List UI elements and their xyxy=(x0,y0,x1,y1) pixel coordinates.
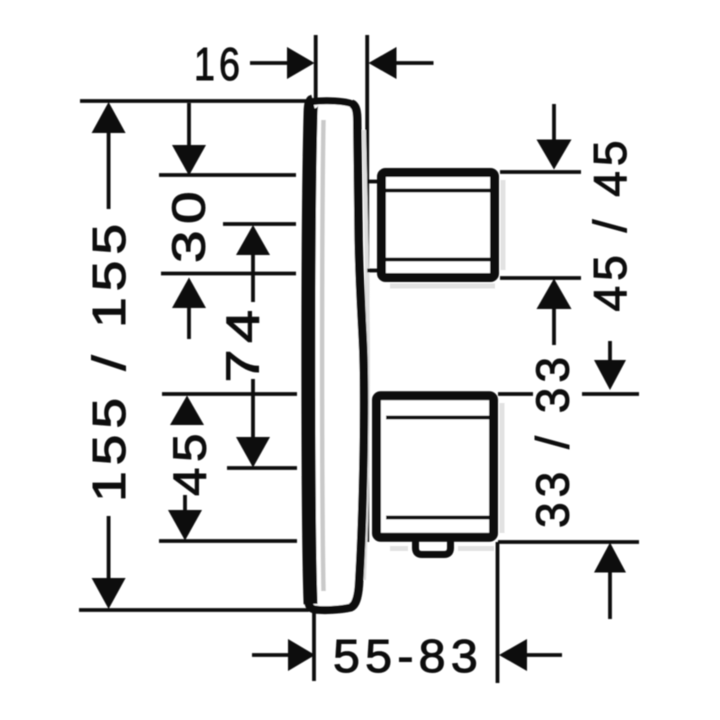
dimension 30 lower arrow tail xyxy=(187,306,191,339)
extension line top of lower knob (left, 45 top reference) xyxy=(162,392,297,396)
upper knob neck bottom line xyxy=(367,269,379,273)
extension line bottom of lower knob (right, 33/33 bottom reference) xyxy=(498,540,639,544)
svg-text:33 / 33: 33 / 33 xyxy=(527,352,579,528)
extension line axis of upper knob (74 top reference) xyxy=(223,222,296,226)
dimension 74 lower arrowhead xyxy=(236,437,270,468)
extension line rear face of plate (16 left reference) xyxy=(314,35,318,104)
dimension 45/45 upper tail xyxy=(552,104,556,141)
dimension 155/155 upper arrowhead xyxy=(92,102,126,133)
svg-text:45 / 45: 45 / 45 xyxy=(584,136,636,312)
extension line bottom of lower knob (left, 45 bottom reference) xyxy=(159,539,297,543)
plate right edge gray ghost xyxy=(364,130,368,580)
dimension 30 upper arrowhead xyxy=(172,145,206,176)
dimension 55-83 right arrow tail xyxy=(527,653,562,657)
svg-text:16: 16 xyxy=(194,38,244,90)
extension line top of plate (155 top reference) xyxy=(80,99,315,103)
dimension 16 right arrowhead xyxy=(369,47,397,79)
extension line top of lower knob (right, 33/33 top reference, left segment) xyxy=(498,392,533,396)
dimension 55-83 left arrow tail xyxy=(252,653,289,657)
svg-text:30: 30 xyxy=(163,185,215,263)
escutcheon plate (side profile, white fill body) xyxy=(309,101,364,610)
lower knob gray ghost (right and bottom) xyxy=(390,403,502,549)
upper knob inner top line xyxy=(386,189,490,193)
extension line bottom of upper knob (right, 45/45 bottom reference) xyxy=(500,276,581,280)
dimension 155/155 lower tail xyxy=(107,516,111,580)
lower knob (handle, side view) xyxy=(377,396,494,538)
svg-text:45: 45 xyxy=(164,428,216,496)
dimension 33/33 lower arrowhead xyxy=(594,543,626,573)
upper knob inner bottom line xyxy=(386,258,490,262)
plate inner highlight line xyxy=(322,120,323,591)
dimension 33/33 upper arrowhead xyxy=(594,360,626,390)
extension line top of upper knob (left, 30 top reference) xyxy=(159,173,296,177)
dimension 55-83 right arrowhead xyxy=(499,639,527,671)
lower knob inner top line xyxy=(386,416,489,420)
dimension 74 upper arrowhead xyxy=(236,225,270,255)
plate right edge xyxy=(351,104,364,608)
dimension 33/33 lower tail xyxy=(608,571,612,619)
upper knob gray ghost (right and bottom) xyxy=(390,180,503,286)
dimension 30 lower arrowhead xyxy=(172,278,206,309)
extension line bottom of upper knob (left, 30 bottom reference) xyxy=(161,272,296,276)
plate left edge xyxy=(308,102,313,604)
dimension 30 upper arrow tail xyxy=(187,103,191,147)
dimension 16 left arrow tail xyxy=(250,61,288,65)
dimension 155/155 upper tail xyxy=(107,133,111,209)
dimension 45 lower arrowhead xyxy=(168,510,202,541)
dimension 45 lower line xyxy=(183,495,187,512)
dimension 155/155 lower arrowhead xyxy=(92,578,126,609)
upper knob neck top line xyxy=(367,180,379,184)
dimension 45 upper arrowhead xyxy=(170,396,204,426)
extension line left of 55-83 span xyxy=(312,612,316,681)
plate bottom edge xyxy=(308,600,351,610)
extension line right of 55-83 span xyxy=(496,542,500,683)
extension line bottom of plate (155 bottom reference) xyxy=(79,608,309,612)
dimension 33/33 upper tail xyxy=(608,341,612,361)
extension line top of upper knob (right, 45/45 top reference) xyxy=(500,170,581,174)
lower knob inner bottom line xyxy=(386,516,489,520)
dimension 16 left arrowhead xyxy=(287,47,315,79)
lower knob clip tab xyxy=(416,538,451,555)
plate top edge xyxy=(311,101,353,104)
dimension 45/45 lower tail xyxy=(552,307,556,345)
dimension 74 lower line xyxy=(251,379,255,439)
dimension 74 upper line xyxy=(251,254,255,302)
dimension 55-83 left arrowhead xyxy=(288,639,315,671)
dimension 45/45 upper arrowhead xyxy=(537,140,572,170)
extension line front face of plate (16 right reference) xyxy=(365,35,369,542)
svg-text:55-83: 55-83 xyxy=(333,630,483,682)
dimension 45/45 lower arrowhead xyxy=(537,279,572,310)
dimension 16 right arrow tail xyxy=(397,61,434,65)
extension line top of lower knob (right, 33/33 top reference, right segment) xyxy=(582,392,639,396)
extension line axis of lower knob (74 bottom reference) xyxy=(227,466,297,470)
svg-text:155 / 155: 155 / 155 xyxy=(83,218,135,502)
svg-text:74: 74 xyxy=(217,304,269,383)
upper knob (handle, side view) xyxy=(382,173,495,278)
